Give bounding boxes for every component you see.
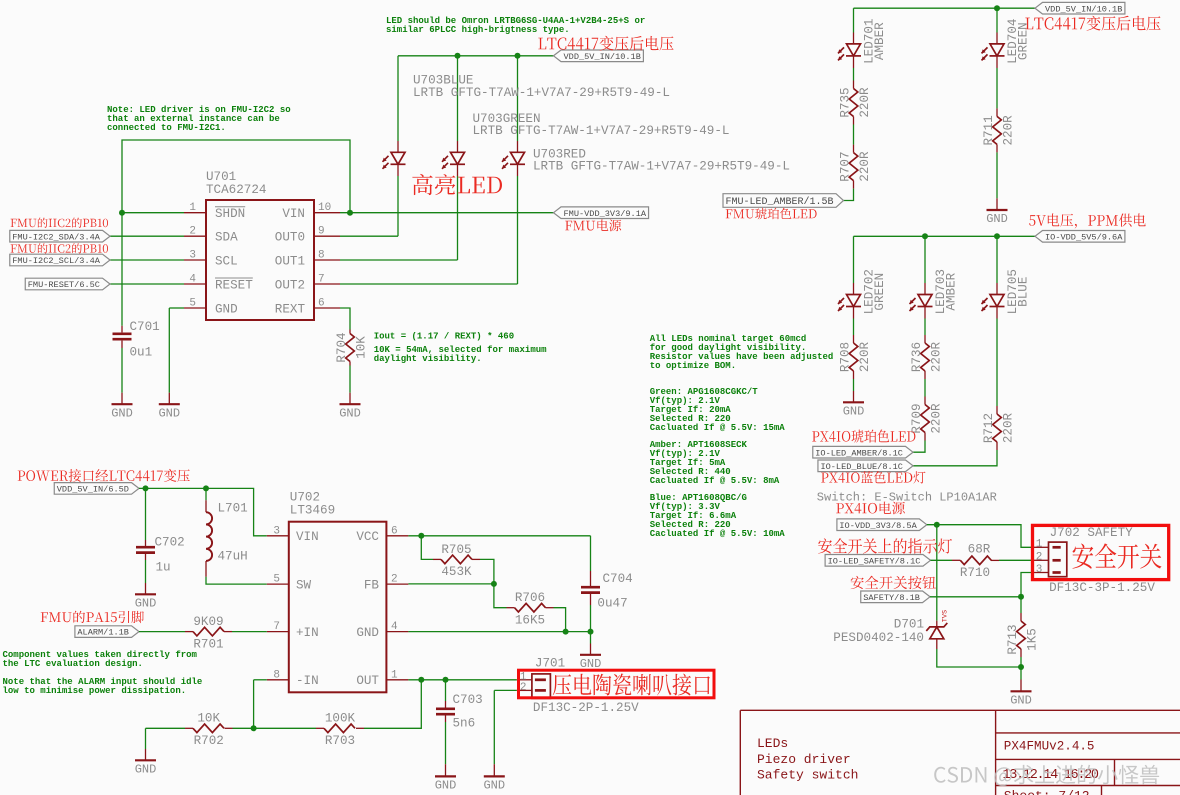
annotation text: FMU电源 [565,219,621,231]
svg-text:16K5: 16K5 [515,614,545,628]
svg-text:Cacluated If @ 5.5V: 8mA: Cacluated If @ 5.5V: 8mA [650,476,780,486]
svg-text:7: 7 [318,274,325,286]
wire rail to LED [996,236,998,283]
IC U701 TCA62724 body [206,200,314,320]
wire to ground [1020,667,1022,680]
title block frame [740,710,1180,795]
U701 pin 6 REXT [314,307,340,309]
ground [987,209,1008,211]
svg-text:J701: J701 [535,657,565,671]
svg-text:GND: GND [158,406,180,420]
svg-text:6: 6 [391,525,398,537]
junction [934,522,940,528]
LED U703 red [502,152,525,169]
highlight box: safety switch [1033,525,1169,579]
wire LED701 to R735 [853,68,855,81]
svg-text:220R: 220R [858,151,872,182]
resistor R713 [1017,621,1026,649]
LED LED703 amber [910,295,933,312]
wire LED column [397,176,399,236]
svg-text:9K09: 9K09 [193,615,223,629]
LED LED704 green [982,44,1005,61]
wire L701 to SW [206,577,267,584]
LED LED702 green [838,295,861,312]
svg-text:D701: D701 [894,618,924,632]
svg-text:AMBER: AMBER [873,22,887,60]
svg-text:220R: 220R [1001,412,1015,443]
svg-text:3: 3 [273,525,280,537]
connector J702 [1049,542,1067,577]
wire 5V top rail [854,7,1036,9]
svg-text:1: 1 [1036,539,1043,551]
annotation text: PX4IO电源 [836,502,905,515]
svg-text:4: 4 [391,621,398,633]
svg-text:FB: FB [364,578,380,592]
U701 pin 9 OUT0 [314,235,340,237]
svg-text:ALARM/1.1B: ALARM/1.1B [77,628,129,638]
svg-text:VIN: VIN [282,207,305,221]
annotation text: 5V电压，PPM供电 [1029,213,1146,228]
svg-text:IO-LED_SAFETY/8.1C: IO-LED_SAFETY/8.1C [828,556,921,566]
annotation text: 安全开关上的指示灯 [818,538,952,553]
annotation text: CSDN @求上进的小怪兽 [934,765,1159,786]
svg-text:3: 3 [1036,564,1043,576]
svg-text:R702: R702 [194,734,224,748]
wire R703 to OUT [364,680,421,729]
wire GND pin5 [169,307,184,309]
wire LED to 5V rail [397,56,399,141]
svg-text:R736: R736 [910,342,924,372]
ground [159,403,180,405]
junction [994,5,1000,11]
highlight box: piezo connector [519,670,715,698]
wire rail to LED [853,236,855,283]
capacitor C701 [113,334,132,339]
wire OUT to LED [340,283,518,285]
svg-text:9: 9 [318,226,325,238]
svg-text:220R: 220R [858,341,872,372]
svg-text:LRTB GFTG-T7AW-1+V7A7-29+R5T9-: LRTB GFTG-T7AW-1+V7A7-29+R5T9-49-L [413,86,670,100]
U701 pin 10 VIN [314,212,340,214]
svg-text:GND: GND [483,779,505,793]
svg-text:VDD_5V_IN/10.1B: VDD_5V_IN/10.1B [1045,4,1122,14]
wire R736 to R709 [924,379,926,397]
wire to R713 [1020,597,1022,613]
svg-text:C702: C702 [155,536,185,550]
wire to R710 [931,559,953,561]
svg-text:SAFETY/8.1B: SAFETY/8.1B [863,593,920,603]
wire LED705 to R712 [996,319,998,407]
wire IO 5V rail [854,235,1036,237]
wire LED column [517,176,519,284]
svg-text:AMBER: AMBER [945,272,959,310]
svg-text:R711: R711 [982,115,996,145]
resistor R707 [849,153,858,181]
resistor R704 [346,334,355,362]
svg-text:PX4FMUv2.4.5: PX4FMUv2.4.5 [1004,740,1095,754]
resistor R706 [515,603,546,612]
net label FMU-I2C2_SDA/3.4A [10,230,110,242]
wire R706 to GND net [554,608,566,632]
resistor R709 [921,405,930,433]
svg-text:R710: R710 [960,566,990,580]
junction [1018,664,1024,670]
svg-text:VDD_5V_IN/6.5D: VDD_5V_IN/6.5D [57,485,129,495]
junction [588,629,594,635]
wire to ground [168,308,170,393]
svg-text:2: 2 [391,574,398,586]
junction [251,725,257,731]
wire R702 to node [233,727,254,729]
wire LED702 to R708 [853,319,855,336]
svg-text:LRTB GFTG-T7AW-1+V7A7-29+R5T9-: LRTB GFTG-T7AW-1+V7A7-29+R5T9-49-L [533,160,790,174]
annotation text: 高亮LED [412,174,502,195]
junction [922,233,928,239]
wire -IN [254,679,267,681]
svg-text:IO-LED_AMBER/8.1C: IO-LED_AMBER/8.1C [815,448,903,458]
ground [135,759,156,761]
svg-text:1K5: 1K5 [1025,628,1039,651]
wire LED to 5V rail [517,56,519,141]
svg-text:Switch: E-Switch LP10A1AR: Switch: E-Switch LP10A1AR [817,491,997,505]
U702 pin 5 SW [267,583,289,585]
junction [203,485,209,491]
wire to LED701 [853,8,855,32]
resistor R703 [324,724,355,733]
svg-text:RESET: RESET [215,278,253,292]
J701 pin 1 [535,678,546,681]
svg-text:Iout = (1.17 / REXT) * 460: Iout = (1.17 / REXT) * 460 [374,332,514,342]
svg-text:100K: 100K [325,712,356,726]
svg-text:GND: GND [843,405,865,419]
junction [994,233,1000,239]
svg-text:GND: GND [111,406,133,420]
net label IO-LED_SAFETY/8.1C [825,555,930,567]
wire safety button [930,596,1021,598]
svg-text:FMU-I2C2_SCL/3.4A: FMU-I2C2_SCL/3.4A [12,256,101,266]
wire R713 to ground rail [1020,657,1022,667]
svg-text:GND: GND [1010,694,1032,708]
resistor R711 [993,116,1002,144]
svg-text:+IN: +IN [296,626,319,640]
svg-text:U701: U701 [206,170,236,184]
U702 pin 7 +IN [267,631,289,633]
svg-text:220R: 220R [929,341,943,372]
net label VDD_5V_IN/6.5D [54,483,139,495]
svg-text:C704: C704 [603,572,633,586]
net label IO-VDD_3V3/8.5A [837,519,927,531]
wire D701 to ground rail [937,649,1021,667]
U702 pin 4 GND [386,631,408,633]
LED LED705 blue [982,295,1005,312]
svg-text:R703: R703 [325,734,355,748]
RESET overline [215,277,253,279]
svg-text:Sheet: 7/12: Sheet: 7/12 [1004,789,1090,795]
resistor R702 [193,724,224,733]
svg-text:68R: 68R [968,543,991,557]
svg-text:daylight visibility.: daylight visibility. [374,354,482,364]
wire VCC net [408,535,590,537]
wire R705 to FB [480,559,494,584]
annotation text: FMU琥珀色LED [726,208,817,220]
svg-text:R701: R701 [193,637,223,651]
net label IO-LED_BLUE/8.1C [818,460,913,472]
ground [135,593,156,595]
svg-text:R705: R705 [441,543,471,557]
wire ALARM [139,631,185,633]
U701 pin 4 RESET [184,283,206,285]
wire LED to 5V rail [457,56,459,141]
svg-text:L701: L701 [218,502,248,516]
svg-text:DF13C-3P-1.25V: DF13C-3P-1.25V [1049,581,1155,595]
svg-text:GND: GND [135,597,157,611]
junction [347,210,353,216]
wire -IN down [253,680,255,729]
net label IO-LED_AMBER/8.1C [813,446,913,458]
wire VIN net [340,212,554,214]
svg-text:LRTB GFTG-T7AW-1+V7A7-29+R5T9-: LRTB GFTG-T7AW-1+V7A7-29+R5T9-49-L [473,124,730,138]
wire C703 to ground [445,722,447,764]
svg-text:220R: 220R [858,87,872,118]
net label ALARM/1.1B [75,626,139,638]
wire SCL [110,259,184,261]
svg-text:47uH: 47uH [218,550,248,564]
J702 pin 2 [1053,559,1061,562]
svg-text:Cacluated If @ 5.5V: 10mA: Cacluated If @ 5.5V: 10mA [650,529,786,539]
wire to D701 [936,525,938,621]
svg-text:IO-VDD_5V5/9.6A: IO-VDD_5V5/9.6A [1045,232,1123,242]
svg-text:-IN: -IN [296,674,319,688]
net label FMU-VDD_3V3/9.1A [554,207,649,219]
connector J701 [532,674,551,699]
resistor R705 [441,555,472,564]
junction [143,485,149,491]
wire to C703 [445,680,447,701]
svg-text:4: 4 [189,274,196,286]
svg-text:GND: GND [215,302,238,316]
svg-text:TVS: TVS [942,610,950,622]
wire LED column [457,176,459,260]
wire R711 to ground [996,152,998,198]
wire OUT to LED [340,259,458,261]
annotation text: PX4IO琥珀色LED [812,430,915,443]
svg-text:C701: C701 [130,320,160,334]
svg-text:R712: R712 [982,413,996,443]
U701 pin 5 GND [184,307,206,309]
svg-text:U702: U702 [290,491,320,505]
wire LED704 to R711 [996,68,998,108]
svg-text:R708: R708 [839,342,853,372]
ground [340,403,361,405]
junction [515,53,521,59]
svg-text:VCC: VCC [356,530,379,544]
svg-text:10: 10 [318,202,331,214]
svg-text:6: 6 [318,298,325,310]
svg-text:GND: GND [986,212,1008,226]
svg-text:5n6: 5n6 [453,717,476,731]
svg-text:GND: GND [435,779,457,793]
wire C702 to ground [145,560,147,583]
wire R735 to R707 [853,125,855,145]
wire REXT [340,308,350,330]
wire pin2 to ground [493,690,495,764]
junction [563,629,569,635]
svg-text:FMU-I2C2_SDA/3.4A: FMU-I2C2_SDA/3.4A [12,232,101,242]
annotation text: LTC4417变压后电压 [1025,16,1160,31]
svg-text:GREEN: GREEN [873,273,887,311]
svg-text:Piezo driver: Piezo driver [757,752,851,767]
annotation text: POWER接口经LTC4417变压 [18,469,190,482]
svg-text:R704: R704 [335,332,349,362]
wire R710 to J702 pin2 [999,559,1033,561]
capacitor C703 [436,709,455,714]
svg-text:R706: R706 [515,591,545,605]
wire to J702 pin3 [1021,573,1033,597]
annotation text: FMU的IIC2的PB10 [11,243,108,253]
svg-text:OUT: OUT [356,674,379,688]
svg-text:GREEN: GREEN [1017,22,1031,60]
net label IO-VDD_5V5/9.6A [1035,231,1125,243]
svg-text:3: 3 [189,250,196,262]
wire RESET [110,283,184,285]
svg-text:LT3469: LT3469 [290,504,335,518]
net label VDD_5V_IN/10.1B [554,50,644,62]
wire 3V3 to J702 pin1 [927,525,1033,548]
svg-text:0u47: 0u47 [597,596,627,610]
svg-text:SW: SW [296,578,312,592]
J702 pin 3 [1053,571,1061,574]
wire pin1 [122,212,184,214]
net label FMU-I2C2_SCL/3.4A [10,254,110,266]
U701 pin 8 OUT1 [314,259,340,261]
ground [580,654,601,656]
svg-text:OUT0: OUT0 [275,231,305,245]
svg-text:5: 5 [273,574,280,586]
svg-text:DF13C-2P-1.25V: DF13C-2P-1.25V [533,701,639,715]
junction [418,533,424,539]
annotation text: 压电陶瓷喇叭接口 [553,674,710,696]
wire R707 to net label [844,189,854,201]
ground [112,403,133,405]
svg-text:PESD0402-140: PESD0402-140 [833,631,924,645]
net label FMU-RESET/6.5C [25,278,110,290]
U702 pin 2 FB [386,583,408,585]
J702 pin 1 [1053,546,1061,549]
svg-text:R709: R709 [910,403,924,433]
wire 5V rail [398,55,554,57]
svg-text:BLUE: BLUE [1017,277,1031,307]
wire FB [408,583,494,585]
U702 pin 8 -IN [267,679,289,681]
svg-text:Safety switch: Safety switch [757,768,858,783]
U701 pin 7 OUT2 [314,283,340,285]
J701 pin 2 [535,689,546,692]
wire to R705 [421,536,433,560]
ground [484,775,505,777]
svg-text:the LTC evaluation design.: the LTC evaluation design. [3,659,143,669]
svg-text:FMU-RESET/6.5C: FMU-RESET/6.5C [28,280,100,290]
svg-text:8: 8 [273,669,280,681]
wire OUT net [408,679,516,681]
ground [843,401,864,403]
wire VIN loop over U701 [122,140,350,213]
wire VCC to C704 [590,536,592,571]
svg-text:VIN: VIN [296,530,319,544]
wire R708 to ground [853,379,855,391]
ground [435,775,456,777]
wire OUT to LED [340,235,398,237]
wire FB to R706 [494,584,507,608]
svg-text:FMU-VDD_3V3/9.1A: FMU-VDD_3V3/9.1A [564,209,647,219]
wire R709 to net label [913,441,925,453]
junction [119,210,125,216]
wire J701 pin2 [494,689,517,691]
wire to ground [590,632,592,644]
wire rail to LED [924,236,926,283]
svg-text:1u: 1u [156,561,171,575]
inductor L701 [206,512,212,561]
svg-text:GND: GND [135,763,157,777]
svg-text:C703: C703 [453,693,483,707]
junction [491,581,497,587]
net label SAFETY/8.1B [861,591,930,603]
wire SDA [110,235,184,237]
svg-text:low to minimise power dissipat: low to minimise power dissipation. [3,686,187,696]
svg-text:SDA: SDA [215,231,238,245]
svg-text:5: 5 [189,298,196,310]
junction [418,677,424,683]
svg-text:220R: 220R [929,403,943,434]
svg-text:1: 1 [189,202,196,214]
TVS diode D701 [926,623,947,639]
wire LED703 to R736 [924,319,926,336]
svg-text:similar 6PLCC high-brigtness t: similar 6PLCC high-brigtness type. [386,25,570,35]
wire R704 to ground [349,366,351,393]
junction [455,53,461,59]
svg-text:2: 2 [520,682,527,694]
svg-text:LEDs: LEDs [757,736,788,751]
wire GND net [408,631,590,633]
wire C704 to GND net [590,605,592,632]
svg-text:2: 2 [189,226,196,238]
svg-text:to optimize BOM.: to optimize BOM. [650,361,736,371]
svg-text:R735: R735 [839,87,853,117]
IC U702 LT3469 body [289,522,387,693]
svg-text:TCA62724: TCA62724 [206,183,266,197]
LED LED701 amber [838,44,861,61]
U702 pin 6 VCC [386,535,408,537]
wire C701 to ground [121,348,123,393]
wire to C702 [145,488,147,540]
capacitor C704 [581,587,600,592]
junction [1018,594,1024,600]
svg-text:SCL: SCL [215,254,238,268]
svg-text:7: 7 [273,621,280,633]
svg-text:REXT: REXT [275,302,306,316]
svg-text:IO-LED_BLUE/8.1C: IO-LED_BLUE/8.1C [820,462,903,472]
LED U703 green [442,152,465,169]
net label FMU-LED_AMBER/1.5B [723,194,844,208]
U702 pin 3 VIN [267,535,289,537]
svg-text:10K: 10K [197,712,220,726]
svg-text:0u1: 0u1 [130,346,153,360]
svg-text:OUT2: OUT2 [275,278,305,292]
svg-text:453K: 453K [441,565,472,579]
svg-text:VDD_5V_IN/10.1B: VDD_5V_IN/10.1B [564,52,641,62]
junction [443,677,449,683]
svg-text:SHDN: SHDN [215,207,245,221]
svg-text:R713: R713 [1006,624,1020,654]
